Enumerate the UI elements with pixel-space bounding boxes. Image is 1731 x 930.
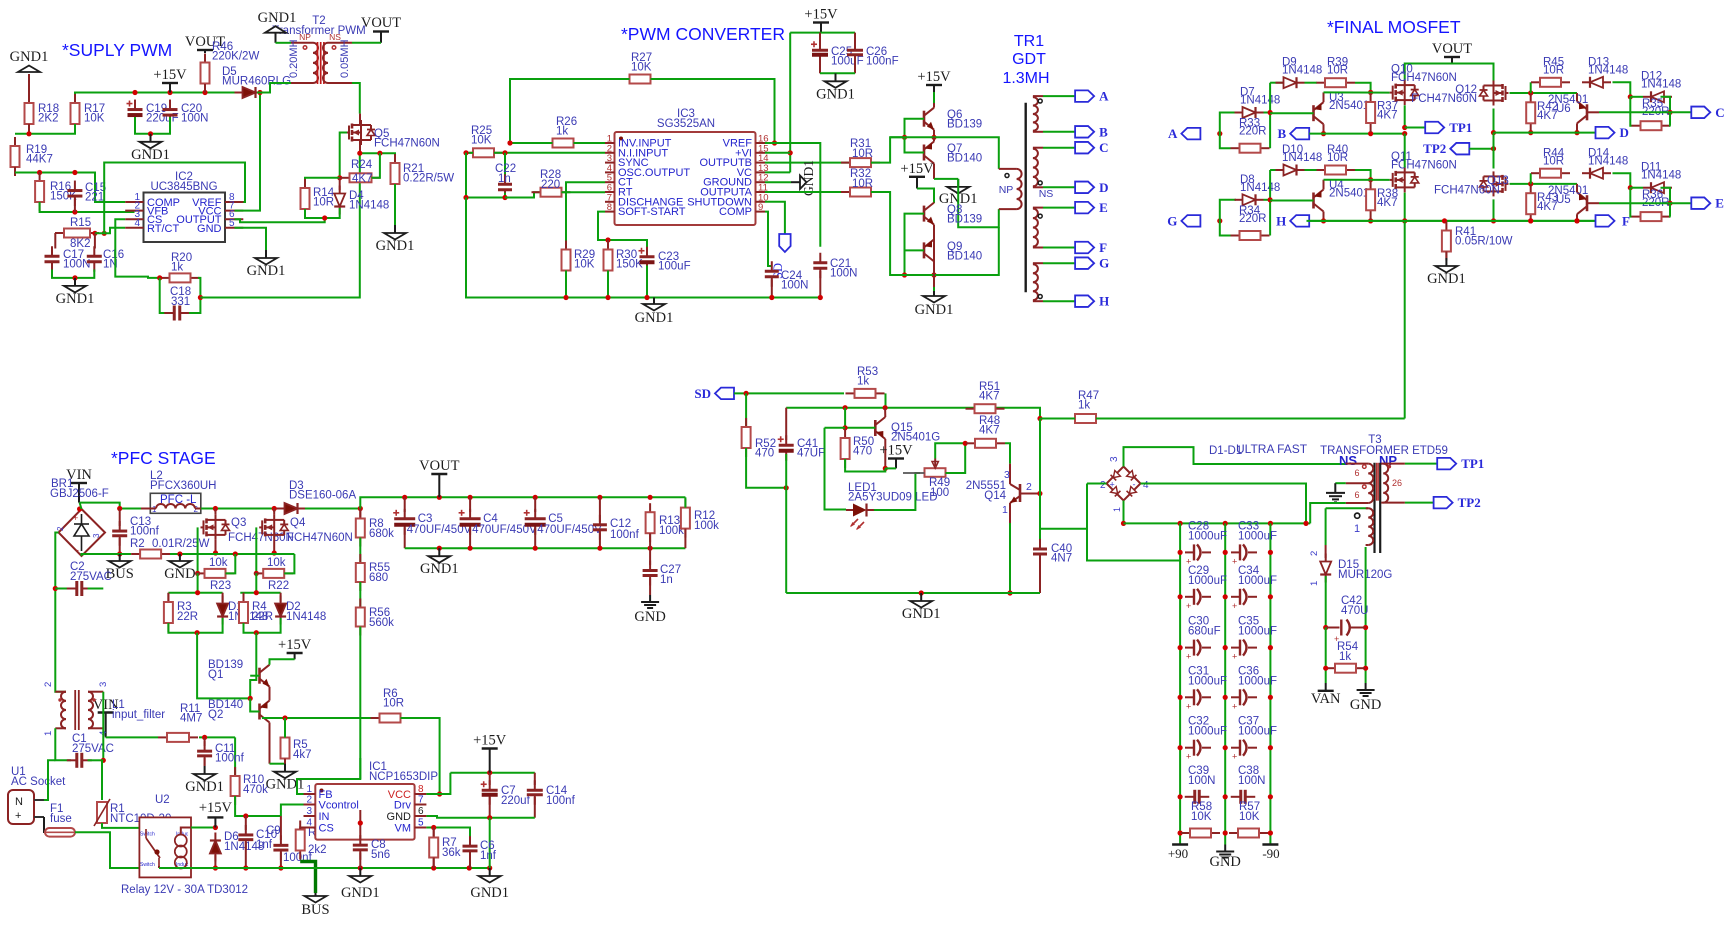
wire R33 left <box>1220 134 1231 149</box>
transformer T3 aux winding <box>1326 508 1369 545</box>
svg-text:MUR460RLG: MUR460RLG <box>222 76 291 88</box>
svg-text:10R: 10R <box>383 698 404 710</box>
transistor U5 2N5401 <box>1577 192 1587 214</box>
svg-text:1000uF: 1000uF <box>1188 726 1227 738</box>
svg-text:N: N <box>15 796 23 808</box>
svg-text:GBJ2506-F: GBJ2506-F <box>50 488 109 500</box>
svg-text:SOFT-START: SOFT-START <box>618 206 686 218</box>
wire NS to H <box>1043 300 1075 302</box>
svg-text:1N4148: 1N4148 <box>1641 79 1681 91</box>
ground GND earth (T3) <box>1326 483 1345 502</box>
svg-text:Switch: Switch <box>140 862 155 868</box>
resistor R28 <box>532 188 571 197</box>
label C39 <box>1188 765 1216 787</box>
label R4 <box>252 601 273 623</box>
svg-text:Relay 12V - 30A TD3012: Relay 12V - 30A TD3012 <box>121 884 248 896</box>
wire to label <box>1670 111 1691 113</box>
svg-text:470: 470 <box>853 446 872 458</box>
label R42 <box>1537 101 1558 122</box>
svg-text:NCP1653DIP: NCP1653DIP <box>369 771 438 783</box>
svg-text:4: 4 <box>1143 480 1149 491</box>
label C10 <box>256 829 277 851</box>
svg-text:VOUT: VOUT <box>361 15 401 31</box>
junction <box>213 506 218 511</box>
wire NS mid tap <box>1335 482 1345 484</box>
wire Q11 source <box>1404 193 1406 221</box>
capacitor C12 <box>593 515 607 540</box>
fuse F1 <box>45 828 75 837</box>
transformer TR1 phase dot <box>1038 181 1042 185</box>
ic IC2 pin 4 RT/CT <box>125 218 179 235</box>
svg-text:+15V: +15V <box>473 733 507 749</box>
junction <box>322 215 327 220</box>
svg-text:100nf: 100nf <box>130 526 160 538</box>
svg-text:Vcontrol: Vcontrol <box>319 800 359 812</box>
svg-text:26: 26 <box>1392 478 1402 488</box>
resistor R12 <box>681 499 690 538</box>
wire c7 top <box>489 773 491 785</box>
junction <box>437 546 442 551</box>
svg-text:*PFC STAGE: *PFC STAGE <box>111 448 216 468</box>
label R17 <box>84 103 105 125</box>
capacitor C39 <box>1185 790 1210 804</box>
resistor R43 <box>1526 184 1535 223</box>
label R41 <box>1455 226 1513 248</box>
svg-text:100k: 100k <box>694 520 719 532</box>
svg-text:D: D <box>1620 125 1629 140</box>
svg-text:GDT: GDT <box>1012 51 1046 68</box>
wire LED cathode <box>874 473 920 510</box>
svg-text:10R: 10R <box>313 197 334 209</box>
junction <box>563 295 568 300</box>
wire aux to D15 <box>1325 508 1327 545</box>
wire c2 right <box>88 588 104 590</box>
junction <box>1223 645 1228 650</box>
junction <box>431 825 436 830</box>
global label TP1 <box>1437 456 1484 471</box>
svg-text:+: + <box>1232 652 1237 662</box>
junction <box>769 295 774 300</box>
junction <box>1178 794 1183 799</box>
junction <box>437 791 442 796</box>
wire row y133 <box>15 124 75 134</box>
junction <box>278 865 283 870</box>
transformer T3 NS winding 2 <box>1346 502 1369 504</box>
svg-text:R24: R24 <box>351 159 373 171</box>
wire R22 right up <box>284 554 294 573</box>
label R19 <box>26 144 53 166</box>
wire c27 bottom <box>649 579 651 596</box>
svg-text:0.05R/10W: 0.05R/10W <box>1455 236 1513 248</box>
wire R18 bottom <box>28 124 30 134</box>
junction <box>1121 521 1126 526</box>
diode D3 DSE160-06A <box>277 503 306 514</box>
svg-text:GND: GND <box>387 811 412 823</box>
wire to R28 <box>505 192 541 197</box>
junction <box>1178 550 1183 555</box>
transformer T3 NS winding 1 <box>1346 464 1369 484</box>
capacitor C15 <box>67 181 82 207</box>
junction <box>358 865 363 870</box>
svg-text:1N4148: 1N4148 <box>1240 95 1280 107</box>
transformer TR1 labels <box>1002 33 1049 87</box>
wire q1 collector <box>270 659 295 664</box>
svg-text:R15: R15 <box>70 217 91 229</box>
wire C3 top <box>404 497 406 512</box>
svg-text:0.05MH: 0.05MH <box>339 39 351 78</box>
svg-text:275VAC: 275VAC <box>70 571 112 583</box>
ground GND1 (under C19) <box>131 134 170 163</box>
svg-text:Drv: Drv <box>394 800 412 812</box>
diode D9 1N4148 <box>1276 77 1305 88</box>
svg-text:2k2: 2k2 <box>308 844 327 856</box>
wire r4d2 top <box>240 592 280 594</box>
svg-text:47UF: 47UF <box>797 448 825 460</box>
label R50 <box>853 436 874 458</box>
svg-text:-90: -90 <box>1262 846 1279 861</box>
junction <box>487 865 492 870</box>
wire r3d1 top <box>168 592 222 594</box>
wire COMP to C24 <box>765 212 772 266</box>
wire bank left rail <box>1179 523 1181 844</box>
junction <box>1628 185 1633 190</box>
svg-text:1000uF: 1000uF <box>1238 675 1277 687</box>
label U6 <box>1548 94 1588 115</box>
svg-text:G: G <box>1167 213 1177 228</box>
label C22 <box>495 163 516 185</box>
junction <box>931 135 936 140</box>
svg-text:1k: 1k <box>1339 651 1351 663</box>
capacitor C6 <box>463 836 478 861</box>
wire L1 to C1 <box>55 728 71 760</box>
svg-text:+15V: +15V <box>917 69 951 85</box>
wire R31 to bases <box>871 137 905 162</box>
wire VREF to C21 <box>765 143 820 247</box>
wire d15 top <box>1325 545 1327 558</box>
capacitor C2 <box>67 581 92 596</box>
svg-text:B: B <box>1278 126 1287 141</box>
wire R48 right <box>1005 443 1010 463</box>
resistor R54 <box>1326 664 1365 673</box>
capacitor C11 <box>197 741 212 766</box>
svg-text:B: B <box>1099 124 1108 139</box>
ground GND1 (under IC2) <box>247 250 286 279</box>
transformer TR1 NP winding leads <box>999 169 1017 209</box>
wire R29 bottom <box>565 271 567 298</box>
resistor R29 <box>562 241 571 280</box>
wire R20-C18 left <box>160 278 165 313</box>
svg-text:100N: 100N <box>781 280 809 292</box>
svg-text:2: 2 <box>1100 480 1106 491</box>
label NS NP <box>1339 453 1397 468</box>
label R54 <box>1337 641 1359 663</box>
svg-text:U6: U6 <box>1556 103 1571 115</box>
wire C9 bottom <box>280 853 282 869</box>
svg-text:100N: 100N <box>1238 775 1266 787</box>
wire base left <box>825 427 846 429</box>
svg-text:1: 1 <box>1002 504 1008 516</box>
label R31 <box>850 138 873 160</box>
resistor R31 <box>841 158 880 167</box>
svg-text:1: 1 <box>1112 507 1122 512</box>
svg-text:6: 6 <box>418 806 424 817</box>
led LED1 2A5Y3UD09 <box>846 504 874 531</box>
junction <box>1574 218 1579 223</box>
capacitor C24 <box>765 261 779 287</box>
svg-text:DSE160-06A: DSE160-06A <box>289 490 356 502</box>
wire q2 collector <box>269 723 271 764</box>
diode D8 1N4148 <box>1235 194 1264 205</box>
resistor R34 <box>1231 231 1270 240</box>
label Q12 <box>1411 84 1477 105</box>
label R1 <box>110 803 171 825</box>
wire R34 left <box>1220 221 1231 236</box>
ic IC1 pin 1 FB <box>304 784 333 801</box>
global label A <box>1168 126 1200 141</box>
label C19 <box>146 103 179 125</box>
resistor R20 <box>161 273 200 282</box>
wire C15 bottom <box>74 199 76 212</box>
label D9 <box>1282 57 1322 77</box>
wire R50 bottom <box>845 459 885 472</box>
wire U3 base <box>1270 112 1313 114</box>
transistor U4 2N5401 <box>1314 190 1324 212</box>
label Q13 <box>1434 175 1509 197</box>
wire van column <box>1325 628 1327 684</box>
svg-text:1N4148: 1N4148 <box>1641 169 1681 181</box>
wire VM row <box>426 828 470 842</box>
wire C16 top <box>94 233 96 248</box>
wire bridge bottom <box>1123 501 1125 524</box>
wire H row <box>1309 220 1595 222</box>
wire SOFTSTART to C23 <box>598 212 647 252</box>
label Q3 <box>228 517 294 544</box>
svg-text:1000uF: 1000uF <box>1188 675 1227 687</box>
wire R41 gnd <box>1445 252 1447 259</box>
svg-text:*PWM CONVERTER: *PWM CONVERTER <box>621 24 785 44</box>
svg-text:UC3845BNG: UC3845BNG <box>150 181 217 193</box>
ground GND (T3 aux) <box>1350 683 1381 713</box>
svg-text:470U: 470U <box>1341 605 1369 617</box>
label R53 <box>857 366 878 388</box>
wire C18 right <box>189 278 200 313</box>
resistor R3 <box>164 593 173 632</box>
junction <box>1402 125 1407 130</box>
svg-text:2N5401: 2N5401 <box>1329 100 1369 112</box>
capacitor C21 <box>813 253 827 279</box>
capacitor C4 <box>459 509 481 535</box>
wire NS to E <box>1043 207 1075 209</box>
wire BR1 to L2 <box>80 503 141 509</box>
wire to R47 <box>1040 418 1075 420</box>
wire d1 top <box>222 593 224 602</box>
svg-text:NP: NP <box>299 32 311 42</box>
junction <box>1442 218 1447 223</box>
svg-text:U5: U5 <box>1556 194 1571 206</box>
wire U5 emitter <box>1576 184 1578 192</box>
svg-text:C9: C9 <box>266 825 281 837</box>
ground GND1 (under R5) <box>266 764 305 793</box>
label D1 <box>228 601 268 623</box>
label R36 <box>1642 189 1670 209</box>
svg-text:4: 4 <box>306 818 312 829</box>
wire Q12-Q13 link <box>1493 133 1495 169</box>
wire rail172 to pin1 <box>15 173 125 203</box>
wire R40 to gate rail <box>1355 170 1371 180</box>
svg-text:GND: GND <box>634 609 665 625</box>
junction <box>358 506 363 511</box>
junction <box>605 237 610 242</box>
svg-text:TP1: TP1 <box>1461 456 1484 471</box>
wire c7 bottom <box>489 797 491 818</box>
label T3 <box>1320 434 1448 457</box>
resistor R46 <box>201 54 210 93</box>
junction <box>177 551 182 556</box>
diode D12 1N4148 <box>1643 91 1672 102</box>
ground GND1 (driver mid) <box>939 179 978 207</box>
wire to NP bottom <box>958 179 999 227</box>
junction <box>257 90 262 95</box>
svg-text:SG3525AN: SG3525AN <box>657 118 715 130</box>
svg-text:F: F <box>1099 240 1107 255</box>
resistor R36 <box>1632 212 1671 221</box>
wire CS to R20 <box>115 219 159 278</box>
svg-text:1000uF: 1000uF <box>1188 575 1227 587</box>
svg-text:10k: 10k <box>209 557 228 569</box>
junction <box>1321 218 1326 223</box>
svg-text:+15V: +15V <box>153 67 187 83</box>
ic IC3 pin 1 INV.INPUT <box>605 134 672 150</box>
wire C13 top <box>119 509 121 527</box>
wire VCC to rail <box>426 773 450 794</box>
wire VOUT bus <box>1405 64 1494 81</box>
section title PFC STAGE <box>111 448 216 468</box>
svg-text:1k: 1k <box>556 126 568 138</box>
svg-text:4N7: 4N7 <box>1051 553 1072 565</box>
svg-text:A: A <box>1168 126 1178 141</box>
svg-text:+: + <box>1232 752 1237 762</box>
svg-text:H: H <box>1099 294 1109 309</box>
label turns 1 <box>1354 523 1360 535</box>
svg-text:3: 3 <box>98 682 109 687</box>
label R49 <box>929 477 950 499</box>
label C20 <box>181 103 209 125</box>
wire C10 bottom <box>245 842 247 868</box>
wire bank top row <box>1124 522 1311 524</box>
wire q7c row <box>934 178 958 180</box>
ic IC2 pin 6 OUTPUT <box>176 209 243 226</box>
ground BUS flag <box>106 554 134 582</box>
label R3 <box>177 601 198 623</box>
svg-text:680uF: 680uF <box>1188 626 1221 638</box>
junction <box>507 140 512 145</box>
junction <box>818 295 823 300</box>
ic IC1 pin 4 CS <box>304 818 334 835</box>
label R32 <box>850 168 873 190</box>
transistor Q11 FCH47N60N mosfet <box>1390 167 1419 192</box>
bus wire to BUS flag <box>300 862 315 894</box>
junction <box>77 506 82 511</box>
label R11 <box>180 703 202 725</box>
diode D10 1N4148 <box>1276 165 1305 176</box>
junction <box>843 405 848 410</box>
global label D <box>1596 125 1629 140</box>
label C42 <box>1341 595 1369 617</box>
junction <box>1223 830 1228 835</box>
transformer T3 NP winding <box>1381 464 1405 503</box>
label R18 <box>38 103 59 125</box>
svg-text:COMP: COMP <box>719 206 752 218</box>
resistor R38 <box>1366 180 1375 219</box>
junction <box>337 175 342 180</box>
global label G <box>1075 256 1109 271</box>
svg-text:100: 100 <box>930 487 949 499</box>
svg-text:4K7: 4K7 <box>979 425 999 437</box>
pin numbers L1 <box>43 682 109 736</box>
svg-text:GND1: GND1 <box>258 10 297 26</box>
wire R26 left <box>510 142 553 144</box>
wire r55-r56 <box>359 582 361 607</box>
label L1 <box>112 699 165 721</box>
wire to C row <box>1661 97 1671 113</box>
label D14 <box>1588 147 1628 167</box>
junction <box>272 506 277 511</box>
label Q8 <box>947 204 982 226</box>
wire r8 top <box>359 509 361 519</box>
wire pfc rail right <box>170 553 294 555</box>
wire R27 left <box>510 79 630 143</box>
wire right filter column <box>102 692 104 761</box>
transformer TR1 NS coil EF <box>1033 208 1043 248</box>
label C15 <box>85 182 106 204</box>
junction <box>463 150 468 155</box>
svg-text:1nf: 1nf <box>256 839 273 851</box>
label R46 <box>212 41 259 63</box>
svg-text:10K: 10K <box>84 113 105 125</box>
junction <box>1223 695 1228 700</box>
wire T2 to Q5 drain <box>352 83 360 114</box>
svg-text:3: 3 <box>306 806 312 817</box>
capacitor C1 <box>67 753 92 768</box>
junction <box>883 405 888 410</box>
svg-text:GND1: GND1 <box>635 310 674 326</box>
wire gnd down <box>489 818 491 868</box>
svg-text:220R: 220R <box>1239 126 1267 138</box>
label R39 <box>1327 57 1348 77</box>
junction <box>167 90 172 95</box>
ic IC2 pin 8 VREF <box>192 192 243 209</box>
ground GND1 (under C17) <box>56 278 95 307</box>
wire R12 top <box>684 497 686 507</box>
svg-text:R23: R23 <box>210 580 231 592</box>
svg-text:10R: 10R <box>852 148 873 160</box>
label R24 <box>351 159 373 185</box>
wire c2 left <box>55 588 71 590</box>
transistor Q10 FCH47N60N mosfet <box>1390 80 1419 105</box>
label NS <box>1039 188 1054 200</box>
capacitor C5 <box>524 509 546 535</box>
svg-text:GND1: GND1 <box>420 561 459 577</box>
junction <box>487 770 492 775</box>
label R33 <box>1239 118 1267 138</box>
wire U1 N <box>44 760 55 800</box>
wire q6 e <box>934 130 936 138</box>
junction <box>744 391 749 396</box>
svg-text:10K: 10K <box>471 135 492 147</box>
wire d-r <box>1305 169 1317 171</box>
wire t2-vout <box>352 42 381 44</box>
junction <box>788 150 793 155</box>
